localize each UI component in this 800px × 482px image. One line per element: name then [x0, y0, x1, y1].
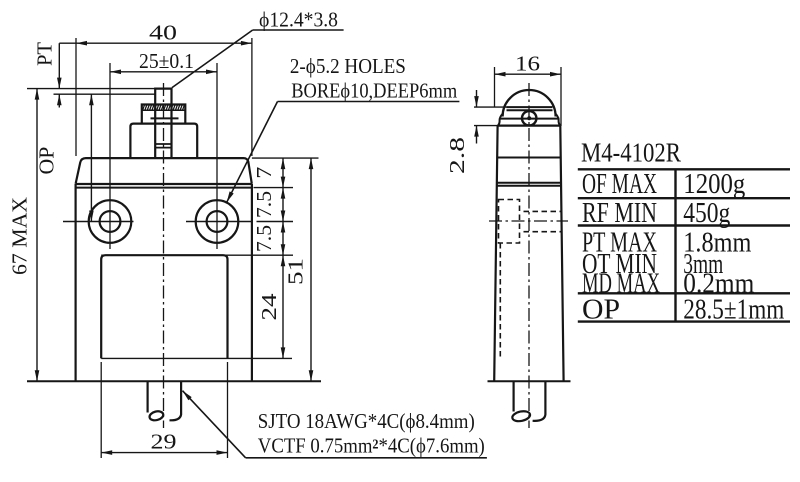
- dimension OP: [90, 94, 92, 221]
- dimension 51 line: [310, 158, 312, 381]
- dimension 67 MAX: [36, 89, 38, 382]
- svg-text:BOREϕ10,DEEP6mm: BOREϕ10,DEEP6mm: [291, 79, 457, 103]
- hole horizontal centerline left: [63, 221, 134, 223]
- dimension 2.8 arrows: [476, 90, 478, 107]
- side horizontal centerline: [489, 220, 568, 222]
- inner rectangle bottom extension line: [101, 357, 292, 359]
- svg-text:67 MAX: 67 MAX: [8, 197, 32, 275]
- svg-text:16: 16: [515, 52, 540, 76]
- side body section lines: [497, 157, 562, 159]
- front cable end ellipse: [149, 410, 165, 422]
- cable label leader line: [183, 391, 246, 458]
- hole centerline extension to dim chain: [257, 221, 294, 223]
- cap top extension line: [252, 157, 319, 159]
- svg-text:2.8: 2.8: [445, 137, 469, 174]
- svg-text:7: 7: [252, 167, 276, 179]
- svg-text:29: 29: [151, 430, 177, 454]
- front view vertical centerline: [163, 83, 165, 428]
- svg-text:1200g: 1200g: [683, 169, 745, 200]
- dimension 16 line: [495, 73, 562, 75]
- side hidden bore lines: [524, 210, 562, 212]
- dimension 29: [101, 452, 227, 454]
- svg-text:VCTF 0.75mm2*4C(ϕ7.6mm): VCTF 0.75mm2*4C(ϕ7.6mm): [258, 434, 485, 458]
- svg-text:28.5±1mm: 28.5±1mm: [683, 295, 784, 326]
- hole horizontal centerline right: [186, 221, 252, 223]
- plunger nut with knurling: [142, 105, 186, 124]
- svg-text:51: 51: [284, 258, 308, 285]
- switch body outline: [76, 184, 252, 381]
- svg-text:2-ϕ5.2 HOLES: 2-ϕ5.2 HOLES: [290, 54, 406, 78]
- dimension 2.8 extension lines: [474, 106, 507, 108]
- cap bottom lip lines: [76, 183, 252, 185]
- inner rectangle on body: [101, 255, 227, 358]
- svg-text:SJTO 18AWG*4C(ϕ8.4mm): SJTO 18AWG*4C(ϕ8.4mm): [258, 409, 475, 433]
- head band line: [501, 118, 560, 120]
- plunger pin groove: [155, 143, 171, 145]
- side view dome head: [503, 90, 556, 117]
- switch cap (top cover): [76, 158, 252, 184]
- svg-text:7.5: 7.5: [252, 191, 276, 218]
- hole vertical extension lines: [109, 63, 111, 249]
- plunger label leader line: [172, 30, 253, 88]
- svg-text:40: 40: [149, 21, 177, 45]
- side body bottom line: [488, 380, 571, 382]
- side view vertical centerline: [528, 83, 530, 428]
- dimension 40 line: [59, 42, 252, 44]
- table row line 2: [578, 224, 790, 226]
- side body outline: [494, 126, 563, 382]
- plunger pin flange line: [151, 117, 179, 119]
- left mounting hole: [89, 200, 132, 243]
- table row line 1: [578, 197, 790, 199]
- side hidden cable passage line: [499, 243, 501, 360]
- side bezel line: [498, 124, 561, 126]
- cap lip extension line: [254, 187, 294, 189]
- svg-text:OF MAX: OF MAX: [582, 169, 657, 200]
- roller pin circle: [522, 111, 536, 125]
- right dimension chain line: [282, 158, 284, 358]
- inner rectangle top extension line: [101, 254, 293, 256]
- table bottom border: [578, 320, 790, 322]
- svg-text:RF MIN: RF MIN: [582, 198, 657, 229]
- svg-text:450g: 450g: [683, 198, 730, 229]
- dimension 25 line: [110, 71, 217, 73]
- svg-text:24: 24: [257, 293, 281, 321]
- dimension 40 extension lines: [75, 38, 77, 156]
- table row line 3: [578, 292, 790, 294]
- table column divider: [674, 169, 676, 321]
- svg-text:ϕ12.4*3.8: ϕ12.4*3.8: [259, 8, 338, 32]
- body bottom line with extensions: [27, 380, 321, 382]
- plunger top extension line: [27, 88, 155, 90]
- dimension PT: [58, 43, 60, 88]
- front view plunger pin: [155, 89, 171, 158]
- side cable: [512, 381, 514, 411]
- dome plate lines: [507, 106, 553, 108]
- svg-text:7.5: 7.5: [252, 225, 276, 252]
- right mounting hole: [196, 200, 239, 243]
- svg-text:25±0.1: 25±0.1: [139, 49, 194, 73]
- table top border: [578, 168, 790, 170]
- svg-text:PT: PT: [33, 42, 57, 66]
- front cable: [147, 381, 149, 412]
- side hidden hole rectangle: [499, 200, 520, 244]
- dimension 16 extension lines: [494, 67, 496, 107]
- svg-text:M4-4102R: M4-4102R: [581, 138, 681, 168]
- side head ears: [498, 114, 560, 126]
- svg-text:OP: OP: [582, 295, 620, 326]
- svg-text:OP: OP: [35, 147, 59, 175]
- operating position line: [54, 93, 156, 95]
- side cable end ellipse: [511, 410, 531, 423]
- plunger base block: [130, 124, 197, 158]
- holes label leader line: [227, 102, 278, 203]
